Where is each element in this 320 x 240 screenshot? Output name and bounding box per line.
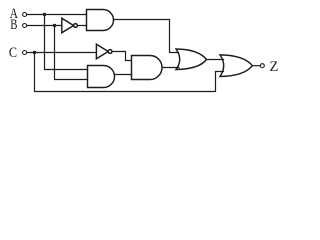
OR gate G5 (OR2) xyxy=(220,55,252,77)
inverter U2 (NOT on C) xyxy=(96,44,112,59)
input terminal C xyxy=(23,51,27,55)
inverter U1 (NOT on B) xyxy=(62,18,78,33)
node B junction dot xyxy=(53,24,56,27)
node C junction dot xyxy=(33,51,36,54)
wire G2 output to OR1 input 2 xyxy=(162,67,179,69)
wire U1 output to AND1 input 2 xyxy=(77,25,86,27)
wire U2 output to AND2 input 1 xyxy=(112,52,132,61)
wire B branch down to AND3 input 2 xyxy=(55,26,88,80)
svg-text:C: C xyxy=(9,45,17,61)
wire A branch down to AND3 input 1 xyxy=(45,15,88,70)
wire OR2 output to terminal Z xyxy=(252,65,260,67)
svg-text:B: B xyxy=(10,17,17,33)
wire B to inverter U1 xyxy=(27,25,62,27)
AND gate G1 (top) xyxy=(87,10,114,31)
AND gate G2 (middle) xyxy=(132,56,163,80)
node A junction dot xyxy=(43,13,46,16)
wire G1 output to OR1 input 1 xyxy=(114,20,179,53)
input terminal B xyxy=(23,24,27,28)
wire OR1 output to OR2 input 1 xyxy=(207,59,224,61)
wire A to AND1 xyxy=(27,14,87,16)
AND gate G3 (lower left) xyxy=(88,66,115,88)
wire C branch bottom rail to OR2 input 2 xyxy=(35,53,224,92)
OR gate G4 (OR1) xyxy=(176,49,207,70)
svg-text:Z: Z xyxy=(270,59,279,75)
input terminal A xyxy=(23,13,27,17)
wire C to inverter U2 xyxy=(27,52,97,54)
output terminal Z xyxy=(260,64,264,68)
wire G3 output to AND2 input 2 xyxy=(114,74,131,76)
